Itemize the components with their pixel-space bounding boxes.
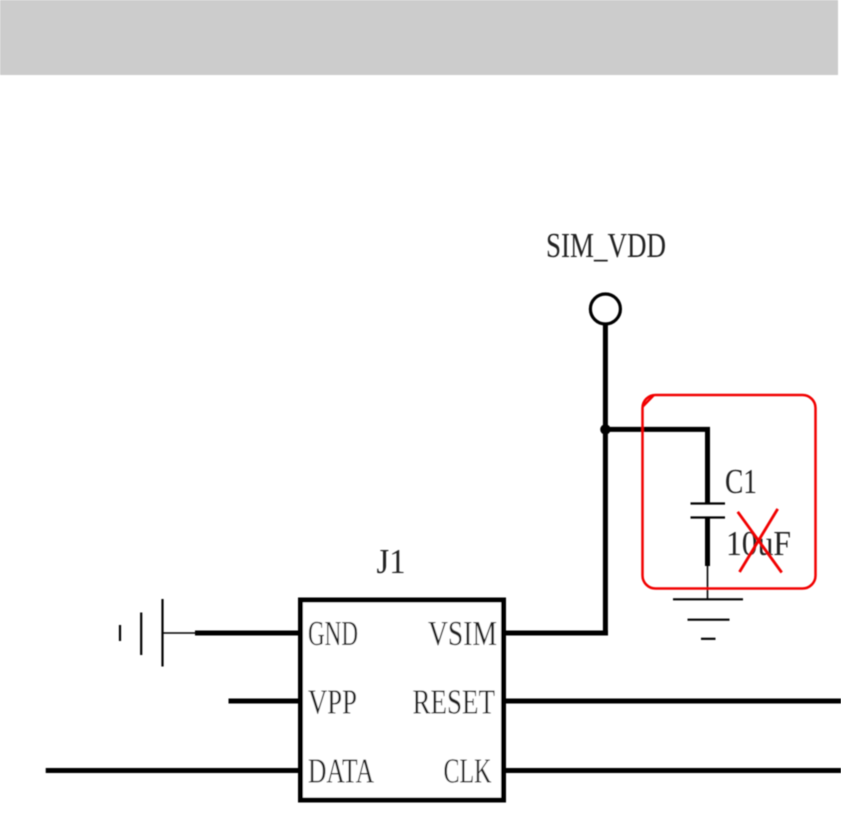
ground symbol under C1: bar 3: [701, 638, 716, 640]
capacitor C1 bottom plate: [691, 516, 726, 518]
wire vertical capacitor top lead: [705, 429, 710, 503]
svg-text:10uF: 10uF: [726, 525, 791, 563]
wire horizontal from junction to capacitor branch: [605, 427, 710, 432]
svg-text:VSIM: VSIM: [428, 615, 497, 653]
wire RESET pin: [504, 699, 841, 704]
red pen start mark at box corner: [643, 396, 654, 407]
svg-text:C1: C1: [725, 463, 757, 501]
thin lead to ground: [707, 566, 709, 599]
svg-text:SIM_VDD: SIM_VDD: [546, 227, 666, 265]
svg-text:GND: GND: [308, 615, 358, 653]
svg-text:CLK: CLK: [444, 753, 492, 791]
wire GND pin: [195, 631, 300, 636]
svg-text:RESET: RESET: [413, 684, 496, 722]
junction dot: [600, 424, 610, 434]
wire CLK pin: [504, 768, 841, 773]
wire VSIM pin to vertical net: [504, 631, 608, 636]
ground symbol under C1: bar 1: [673, 598, 743, 600]
red cross-out X over value: [738, 512, 782, 573]
svg-text:VPP: VPP: [308, 684, 357, 722]
terminal circle SIM_VDD: [590, 294, 620, 324]
ground symbol left: bar large: [161, 599, 163, 667]
header gray bar: [0, 0, 838, 75]
svg-text:J1: J1: [377, 543, 406, 581]
ground symbol under C1: bar 2: [688, 619, 730, 621]
thin lead from ground symbol: [163, 632, 197, 634]
wire VPP pin: [229, 699, 301, 704]
capacitor C1 bottom lead: [705, 518, 710, 567]
capacitor C1 top plate: [691, 502, 726, 504]
connector J1 box: [301, 600, 504, 800]
svg-text:DATA: DATA: [308, 753, 374, 791]
red highlight rounded box around C1: [643, 395, 816, 589]
ground symbol left: bar small: [119, 625, 121, 641]
wire vertical from SIM_VDD terminal to VSIM pin: [603, 324, 608, 634]
wire DATA pin: [46, 768, 300, 773]
ground symbol left: bar mid: [140, 613, 142, 656]
